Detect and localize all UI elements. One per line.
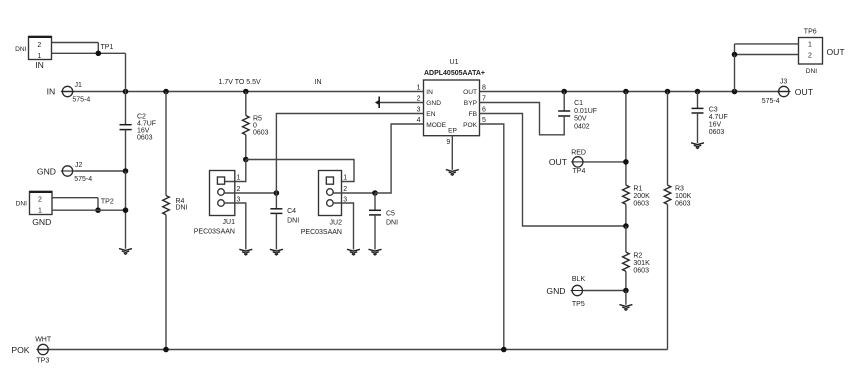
wire TP5 to R2 column: [584, 290, 626, 292]
svg-text:R3: R3: [675, 186, 684, 193]
svg-text:TP1: TP1: [101, 44, 114, 51]
node junction rail/R4: [163, 347, 169, 353]
resistor R5: [243, 92, 269, 160]
svg-text:2: 2: [38, 197, 42, 204]
node junction OUT/R1: [623, 89, 629, 95]
svg-text:575-4: 575-4: [762, 98, 780, 105]
svg-text:9: 9: [446, 139, 450, 146]
node junction OUT/R3: [665, 89, 671, 95]
svg-text:1: 1: [37, 53, 41, 60]
node junction OUT/C3: [695, 89, 701, 95]
wire POK net riser: [480, 124, 504, 350]
svg-text:TP2: TP2: [101, 199, 114, 206]
svg-text:0603: 0603: [633, 201, 649, 208]
svg-text:DNI: DNI: [176, 204, 188, 211]
svg-text:1: 1: [417, 85, 421, 92]
node R5 bottom junction: [243, 157, 249, 163]
svg-text:DNI: DNI: [15, 46, 27, 53]
svg-text:R2: R2: [633, 253, 642, 260]
ground C3: [691, 143, 704, 149]
connector J2: [37, 162, 92, 183]
node J2 junction: [123, 168, 129, 174]
capacitor C5: [369, 193, 398, 250]
connector J1: [47, 82, 91, 104]
connector TP3: [11, 337, 52, 365]
wire TP4 to R1 column: [585, 161, 626, 163]
svg-text:C1: C1: [574, 100, 583, 107]
svg-text:16V: 16V: [709, 122, 722, 129]
svg-text:BYP: BYP: [464, 100, 478, 107]
node junction IN/R4: [163, 89, 169, 95]
wire R5 net to JU1 pin1: [225, 160, 246, 182]
ground C4: [270, 249, 283, 255]
svg-text:0: 0: [253, 122, 257, 129]
resistor R4: [163, 92, 188, 350]
svg-text:POK: POK: [11, 345, 29, 355]
ground JU2 pin3: [347, 249, 360, 255]
wire JU1 pin2 to C4 node: [224, 192, 276, 194]
connector J3: [762, 78, 814, 105]
node C4/EN junction: [274, 190, 280, 196]
svg-text:ADPL40505AATA+: ADPL40505AATA+: [424, 70, 485, 77]
node TP1 junction: [96, 51, 102, 57]
svg-text:J1: J1: [75, 82, 83, 89]
svg-text:GND: GND: [546, 286, 565, 296]
wire TP6 drop: [734, 44, 736, 55]
node TP4 junction: [623, 159, 629, 165]
svg-text:100K: 100K: [675, 193, 692, 200]
wire R5 net to JU2: [246, 160, 354, 182]
svg-text:0402: 0402: [574, 123, 590, 130]
node junction OUT/C1: [561, 89, 567, 95]
svg-text:DNI: DNI: [287, 218, 299, 225]
wire EN net up to U1 pin3: [276, 114, 423, 194]
wire BYP net from C1 to U1 pin7: [480, 103, 565, 135]
svg-text:575-4: 575-4: [72, 97, 90, 104]
ground C5: [369, 249, 382, 255]
svg-text:IN: IN: [315, 79, 322, 86]
svg-text:0.01UF: 0.01UF: [574, 108, 597, 115]
svg-text:GND: GND: [32, 217, 51, 227]
resistor R1: [623, 92, 650, 227]
connector TP1: [15, 37, 113, 71]
svg-text:7: 7: [482, 96, 486, 103]
svg-text:200K: 200K: [633, 193, 650, 200]
svg-text:2: 2: [808, 53, 812, 60]
svg-text:OUT: OUT: [827, 47, 846, 57]
svg-text:FB: FB: [469, 111, 478, 118]
ground arrow on U1 GND pin: [375, 97, 424, 109]
svg-text:50V: 50V: [574, 116, 587, 123]
wire JU1 pin3 to ground: [224, 203, 246, 250]
svg-text:TP3: TP3: [36, 358, 49, 365]
capacitor C2: [120, 92, 157, 172]
node junction IN/C2: [123, 89, 129, 95]
svg-text:JU1: JU1: [223, 219, 236, 226]
svg-text:C3: C3: [709, 107, 718, 114]
svg-text:4.7UF: 4.7UF: [709, 114, 728, 121]
svg-text:DNI: DNI: [806, 68, 818, 75]
svg-text:IN: IN: [35, 60, 44, 70]
svg-text:16V: 16V: [137, 128, 150, 135]
svg-text:0603: 0603: [709, 129, 725, 136]
connector TP2: [16, 192, 114, 228]
node TP6 junction: [732, 52, 738, 58]
wire J2 to GND column: [74, 170, 125, 172]
ground R2: [619, 305, 632, 311]
jumper JU1: [194, 171, 241, 236]
svg-text:WHT: WHT: [35, 337, 52, 344]
wire MODE net to U1 pin4: [375, 124, 424, 193]
capacitor C3: [692, 92, 728, 144]
wire TP1 pin2 stub: [52, 42, 99, 44]
svg-text:OUT: OUT: [549, 157, 568, 167]
wire FB net: [480, 114, 626, 227]
svg-text:0603: 0603: [675, 201, 691, 208]
svg-text:R1: R1: [633, 186, 642, 193]
svg-text:PEC03SAAN: PEC03SAAN: [194, 228, 235, 235]
svg-text:1: 1: [38, 208, 42, 215]
wire TP1 column to IN rail: [125, 53, 127, 91]
wire TP2 pin1 to GND column: [52, 209, 126, 211]
node TP2 junction: [95, 207, 101, 213]
node junction rail/POK riser: [501, 347, 507, 353]
wire TP6 pin2 stub: [735, 54, 799, 56]
svg-text:DNI: DNI: [386, 220, 398, 227]
svg-text:IN: IN: [47, 87, 56, 97]
connector TP4: [549, 150, 586, 176]
svg-text:4.7UF: 4.7UF: [137, 121, 156, 128]
node FB junction: [623, 223, 629, 229]
svg-text:EP: EP: [448, 127, 457, 134]
svg-text:TP6: TP6: [804, 29, 817, 36]
svg-text:POK: POK: [463, 122, 478, 129]
capacitor C4: [270, 193, 299, 250]
svg-text:BLK: BLK: [572, 276, 586, 283]
svg-text:0603: 0603: [253, 129, 269, 136]
svg-text:6: 6: [482, 107, 486, 114]
svg-text:C5: C5: [386, 211, 395, 218]
svg-text:0603: 0603: [137, 135, 153, 142]
wire R2 bottom to ground: [625, 291, 627, 305]
wire TP1 pin1 to C2 column: [52, 52, 126, 54]
node junction OUT/TP6: [732, 89, 738, 95]
capacitor C1: [558, 92, 597, 131]
svg-text:4: 4: [417, 117, 421, 124]
ground EP: [446, 170, 459, 176]
node GND column junction: [123, 207, 129, 213]
svg-text:1: 1: [237, 175, 241, 182]
svg-text:2: 2: [37, 42, 41, 49]
wire POK bottom rail: [37, 349, 668, 351]
svg-text:0603: 0603: [633, 268, 649, 275]
resistor R2: [623, 226, 650, 291]
wire TP6 pin1 stub: [735, 43, 799, 45]
svg-text:8: 8: [482, 85, 486, 92]
wire GND column: [125, 171, 127, 249]
svg-text:2: 2: [237, 186, 241, 193]
svg-text:IN: IN: [426, 89, 433, 96]
svg-text:MODE: MODE: [426, 122, 446, 129]
svg-text:C2: C2: [137, 114, 146, 121]
svg-text:TP4: TP4: [573, 168, 586, 175]
wire TP6 column to OUT rail: [734, 55, 736, 92]
svg-text:1: 1: [808, 42, 812, 49]
connector TP6: [799, 29, 846, 75]
svg-text:1: 1: [343, 175, 347, 182]
svg-text:J3: J3: [780, 78, 788, 85]
wire IN rail: [62, 91, 424, 93]
svg-text:OUT: OUT: [795, 87, 814, 97]
ground below C2: [119, 249, 132, 255]
svg-text:DNI: DNI: [16, 201, 28, 208]
svg-text:R5: R5: [253, 115, 262, 122]
wire TP2 drop: [97, 198, 99, 211]
wire JU2 pin2 to C5 node: [333, 192, 375, 194]
svg-text:J2: J2: [75, 162, 83, 169]
svg-text:3: 3: [417, 107, 421, 114]
svg-text:2: 2: [343, 186, 347, 193]
svg-text:JU2: JU2: [330, 219, 343, 226]
svg-text:301K: 301K: [633, 260, 650, 267]
jumper JU2: [301, 171, 348, 236]
svg-text:OUT: OUT: [463, 89, 477, 96]
svg-text:C4: C4: [287, 208, 296, 215]
node C5/MODE junction: [372, 190, 378, 196]
svg-text:575-4: 575-4: [74, 176, 92, 183]
svg-text:U1: U1: [450, 59, 459, 66]
svg-text:GND: GND: [37, 166, 56, 176]
wire TP1 drop: [97, 43, 99, 54]
op-amp U1 ADPL40505AATA+: [417, 59, 486, 146]
ground JU1 pin3: [239, 249, 252, 255]
svg-text:TP5: TP5: [572, 301, 585, 308]
svg-text:2: 2: [417, 96, 421, 103]
svg-text:EN: EN: [426, 111, 435, 118]
svg-text:PEC03SAAN: PEC03SAAN: [301, 229, 342, 236]
wire OUT rail: [480, 91, 789, 93]
node junction IN/R5: [243, 89, 249, 95]
svg-text:GND: GND: [426, 100, 441, 107]
svg-text:1.7V TO 5.5V: 1.7V TO 5.5V: [219, 79, 261, 86]
wire TP2 pin2 stub: [52, 197, 98, 199]
svg-text:5: 5: [482, 117, 486, 124]
resistor R3: [664, 92, 691, 350]
node TP5 junction: [623, 288, 629, 294]
wire JU2 pin3 to ground: [333, 203, 353, 250]
svg-text:RED: RED: [571, 150, 586, 157]
wire EP pin 9: [451, 136, 453, 170]
connector TP5: [546, 276, 585, 308]
